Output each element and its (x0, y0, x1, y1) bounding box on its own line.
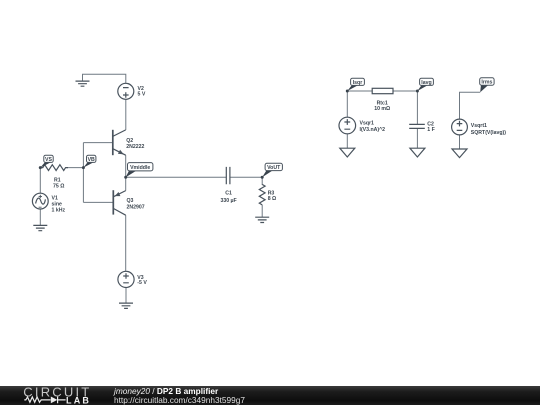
wire Iavg node to C2 (416, 91, 418, 124)
transistor Q3 (113, 190, 125, 215)
wire Vmiddle to C1 (126, 176, 227, 178)
capacitor C1 (226, 167, 230, 184)
wire C2 to ground (416, 129, 418, 149)
node VoUT (261, 163, 283, 179)
resistor R3 (259, 184, 265, 205)
wire Q3 base (83, 201, 113, 203)
resistor R1 (40, 165, 68, 171)
wire Isqr node to Rtc1 (347, 90, 372, 92)
svg-text:LAB: LAB (66, 395, 91, 405)
capacitor C2 (409, 124, 425, 128)
voltage source V2 (118, 83, 134, 99)
wire Vsqrt1 to ground (459, 135, 461, 149)
wire Q2 base (83, 142, 112, 144)
wire V3 bottom to ground (125, 288, 127, 303)
CircuitLab logo (23, 385, 91, 405)
wire Rtc1 to Iavg node (393, 90, 417, 92)
wire Vsqr1 to ground (346, 134, 348, 148)
ground (below Vsqrt1) (452, 149, 467, 158)
wire base bus VB vertical (82, 143, 84, 203)
wire VS node to V1 top (39, 168, 41, 194)
ground (below Vsqr1) (340, 148, 355, 157)
svg-text:http://circuitlab.com/c349nh3t: http://circuitlab.com/c349nh3t599g7 (114, 395, 245, 405)
footer bar (0, 386, 540, 405)
wire Vmiddle to Q3 emitter (125, 177, 127, 190)
voltage source Vsqr1 (339, 117, 356, 134)
wire Q3 collector to V3 (125, 215, 127, 271)
node VB (82, 155, 96, 169)
wire V2 bottom to Q2 collector (125, 99, 127, 130)
resistor Rtc1 (372, 88, 393, 93)
node Irms (480, 78, 494, 93)
wire ground to V2 top (83, 74, 126, 83)
wire V1 bottom to ground (39, 209, 41, 225)
voltage source V1 (32, 193, 48, 209)
voltage source Vsqrt1 (452, 119, 468, 135)
ground (below C2) (410, 148, 425, 157)
node Vmiddle (124, 163, 153, 179)
ground (below V1) (33, 225, 47, 230)
wire Irms node to Vsqrt1 (460, 92, 481, 119)
footer title line (113, 386, 245, 405)
node Isqr (346, 78, 365, 92)
ground (below V3) (119, 303, 133, 308)
node Iavg (416, 78, 434, 92)
transistor Q2 (113, 130, 126, 155)
wire VoUT node to R3 (261, 177, 263, 184)
node VS (39, 155, 53, 169)
wire R1 to VB node (67, 167, 84, 169)
wire Q2 emitter to Vmiddle (125, 155, 127, 177)
ground (below R3) (255, 217, 269, 222)
voltage source V3 (118, 271, 134, 287)
wire C1 to VoUT node (230, 176, 262, 178)
wire R3 to ground (261, 205, 263, 217)
ground (top left) (76, 81, 90, 86)
wire Isqr node to Vsqr1 (346, 91, 348, 117)
